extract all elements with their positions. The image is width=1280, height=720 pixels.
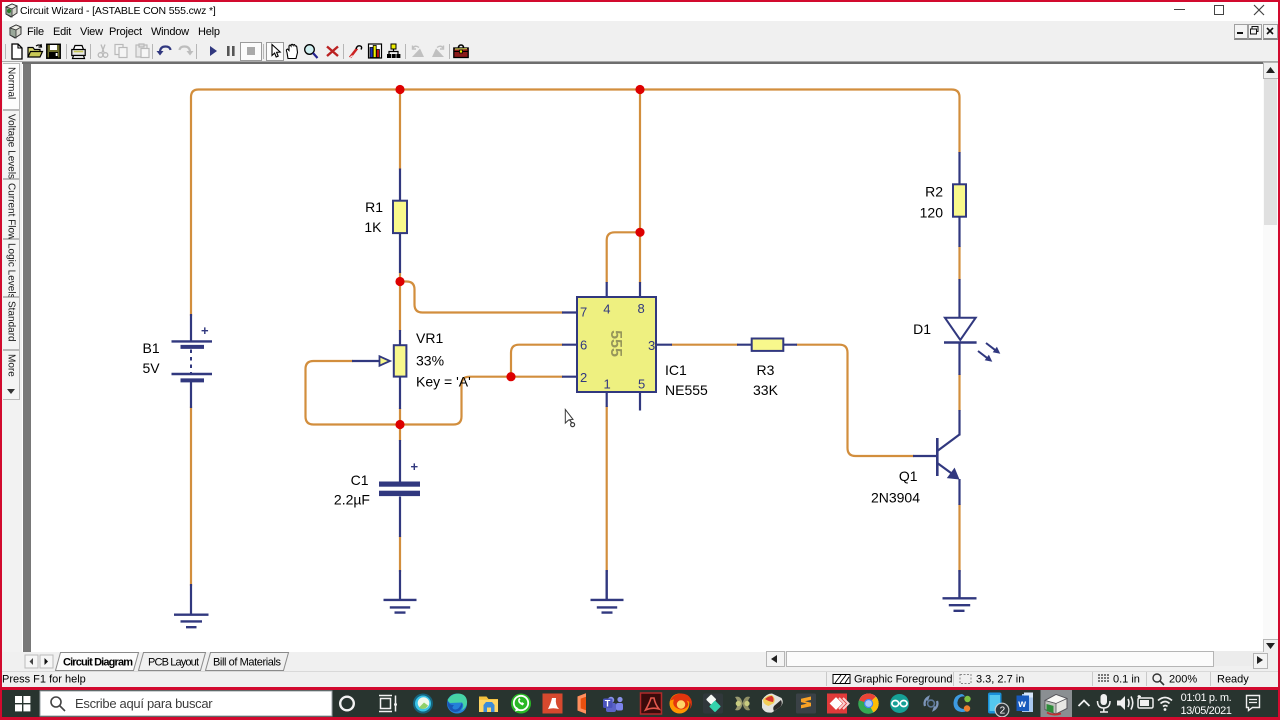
arduino bbox=[890, 694, 909, 713]
wire node to pin7 bbox=[400, 282, 563, 313]
potentiometer VR1 leads bbox=[399, 330, 401, 409]
app icon in titlebar bbox=[4, 3, 19, 18]
wire pin1 ground bbox=[606, 406, 608, 572]
print icon bbox=[72, 46, 85, 59]
sublime bbox=[796, 694, 816, 714]
action center bbox=[1247, 696, 1260, 711]
sync circle bbox=[925, 698, 938, 710]
titlebar buttons bbox=[1174, 9, 1185, 10]
svg-text:w: w bbox=[1017, 699, 1026, 710]
MDI child buttons bbox=[1234, 24, 1248, 40]
svg-text:120: 120 bbox=[920, 205, 944, 221]
svg-text:R2: R2 bbox=[925, 184, 943, 200]
transistor Q1 bar bbox=[936, 438, 939, 476]
svg-text:Graphic Foreground: Graphic Foreground bbox=[854, 674, 952, 686]
svg-text:Escribe aquí para buscar: Escribe aquí para buscar bbox=[75, 696, 213, 711]
wire VR1 top bbox=[399, 282, 401, 332]
battery B1 plates bbox=[172, 341, 213, 374]
search box bbox=[40, 691, 332, 716]
wire R1 top bbox=[399, 90, 401, 170]
capacitor C1 leads bbox=[399, 440, 401, 599]
status bar bbox=[0, 671, 1280, 688]
horizontal scrollbar bbox=[766, 651, 1263, 666]
svg-text:5V: 5V bbox=[143, 360, 161, 376]
red diamond arrows bbox=[827, 694, 847, 714]
svg-text:8: 8 bbox=[638, 301, 645, 316]
ground Q1 bbox=[943, 570, 977, 611]
svg-text:3: 3 bbox=[648, 338, 655, 353]
svg-text:+: + bbox=[201, 323, 209, 338]
wire pin8 riser bbox=[639, 90, 641, 284]
separators bbox=[6, 44, 450, 59]
ground pin1 bbox=[591, 570, 624, 613]
node junction pin4 / pin8 bbox=[635, 228, 644, 237]
select arrow button pressed bbox=[267, 43, 284, 61]
teams bbox=[608, 697, 614, 703]
ground C1 bbox=[384, 600, 417, 613]
dark strip at canvas left bbox=[23, 64, 31, 652]
node junction at pin8 riser / V+ rail bbox=[635, 85, 644, 94]
redo icon (disabled) bbox=[180, 47, 191, 53]
potentiometer VR1 wiper arrow bbox=[352, 360, 381, 362]
wire pin4 to node bbox=[607, 232, 640, 283]
vertical scrollbar bbox=[1263, 62, 1278, 652]
whatsapp bbox=[511, 694, 531, 714]
resistor R3 body bbox=[752, 339, 784, 351]
resistor R1 leads bbox=[399, 169, 401, 274]
wire wiper loop to pins 2,6 bbox=[306, 361, 564, 425]
wire R1 bottom node bbox=[399, 272, 401, 282]
transistor Q1 collector bbox=[937, 410, 959, 451]
node junction VR1 bottom / wiper / C1 top bbox=[395, 420, 404, 429]
svg-text:PCB Layout: PCB Layout bbox=[148, 657, 199, 669]
circuit wizard active tile bbox=[1041, 690, 1073, 717]
hierarchy icon bbox=[387, 44, 400, 58]
delete X icon bbox=[327, 47, 338, 57]
ground B1 bbox=[174, 615, 209, 628]
tray battery bbox=[1138, 698, 1153, 708]
svg-text:555: 555 bbox=[607, 330, 624, 357]
pause icon bbox=[227, 46, 230, 56]
svg-text:Q1: Q1 bbox=[899, 468, 918, 484]
undo icon bbox=[160, 47, 171, 53]
left sidebar bbox=[2, 62, 22, 652]
svg-text:7: 7 bbox=[580, 305, 587, 320]
firefox bbox=[670, 694, 690, 714]
svg-text:NE555: NE555 bbox=[665, 382, 708, 398]
adobe reader highlighted bbox=[641, 693, 662, 714]
wire B1 bottom bbox=[190, 407, 192, 587]
node junction pin2 / pin6 bbox=[506, 372, 515, 381]
transistor Q1 emitter bbox=[937, 463, 959, 505]
start button bbox=[15, 696, 30, 711]
svg-text:200%: 200% bbox=[1169, 674, 1197, 686]
IC 555 pin stubs bbox=[562, 282, 672, 411]
svg-text:1K: 1K bbox=[364, 219, 382, 235]
svg-text:Circuit Diagram: Circuit Diagram bbox=[63, 657, 133, 669]
svg-text:IC1: IC1 bbox=[665, 362, 687, 378]
blue swirl store bbox=[954, 694, 970, 712]
folder explorer bbox=[479, 697, 498, 713]
phone companion bbox=[988, 693, 1002, 714]
rotate left icon (disabled) bbox=[412, 46, 424, 58]
cut icon (disabled) bbox=[98, 45, 108, 58]
LED D1 cathode bar bbox=[944, 341, 977, 344]
cortana ring bbox=[340, 697, 354, 711]
potentiometer VR1 body bbox=[394, 345, 407, 376]
taskbar bbox=[0, 690, 1280, 717]
wire pin3 to R3 bbox=[671, 344, 738, 346]
LED D1 emission arrows bbox=[986, 343, 996, 350]
menu bar bbox=[0, 21, 1280, 42]
wire VR1 bottom bbox=[399, 408, 401, 425]
wire D1 to Q1 collector bbox=[958, 374, 960, 411]
chrome bbox=[859, 694, 879, 714]
chart icon bbox=[369, 44, 382, 58]
svg-text:2.2µF: 2.2µF bbox=[334, 492, 370, 508]
svg-text:01:01 p. m.: 01:01 p. m. bbox=[1181, 692, 1232, 704]
wire C1 top bbox=[399, 425, 401, 442]
node junction at R1 top / V+ rail bbox=[395, 85, 404, 94]
office bbox=[578, 693, 587, 713]
moths bbox=[735, 697, 743, 711]
window title bar bbox=[0, 0, 1280, 21]
filmora bbox=[703, 694, 723, 714]
svg-text:B1: B1 bbox=[143, 340, 160, 356]
svg-text:VR1: VR1 bbox=[416, 330, 443, 346]
new file icon bbox=[12, 44, 22, 59]
svg-text:T: T bbox=[605, 699, 611, 709]
wire top power rail bbox=[191, 90, 960, 317]
svg-text:5: 5 bbox=[638, 377, 645, 392]
hatch icon bbox=[833, 675, 850, 684]
svg-text:D1: D1 bbox=[913, 321, 931, 337]
stop button pressed bbox=[241, 43, 262, 61]
toolbox icon bbox=[454, 45, 468, 58]
rotate right icon (disabled) bbox=[432, 46, 444, 58]
wire R3 to Q1 base bbox=[796, 345, 914, 456]
copy icon (disabled) bbox=[115, 45, 127, 58]
sheet tabs bbox=[56, 653, 289, 671]
svg-text:4: 4 bbox=[603, 302, 610, 317]
resistor R2 leads bbox=[958, 152, 960, 247]
svg-text:R3: R3 bbox=[757, 362, 775, 378]
wire Q1 emitter to ground bbox=[958, 504, 960, 572]
selection icon bbox=[960, 675, 971, 684]
probe icon bbox=[350, 46, 362, 58]
window bottom red border bbox=[0, 687, 1280, 690]
toolbar bbox=[0, 42, 1280, 62]
svg-text:2N3904: 2N3904 bbox=[871, 490, 920, 506]
transistor Q1 base lead bbox=[913, 455, 937, 457]
edge bbox=[447, 694, 467, 714]
resistor R1 body bbox=[393, 201, 407, 233]
svg-text:6: 6 bbox=[580, 338, 587, 353]
svg-text:Ready: Ready bbox=[1217, 674, 1249, 686]
zoom icon bbox=[305, 45, 318, 58]
word bbox=[1022, 694, 1033, 712]
svg-text:33K: 33K bbox=[753, 382, 779, 398]
canvas area bbox=[22, 62, 1263, 654]
open folder icon bbox=[28, 44, 43, 57]
wire C1 bottom bbox=[399, 536, 401, 572]
svg-text:C1: C1 bbox=[351, 472, 369, 488]
play icon bbox=[210, 46, 217, 56]
full frame red border bbox=[0, 0, 1280, 2]
battery B1 leads bbox=[190, 314, 192, 614]
bottom tab bar bbox=[0, 652, 1280, 671]
svg-text:2: 2 bbox=[1000, 706, 1006, 717]
tray speaker bbox=[1117, 696, 1125, 710]
scroll tab arrows bbox=[25, 655, 38, 668]
tray mic bbox=[1101, 694, 1108, 705]
tray chevron bbox=[1079, 701, 1090, 707]
wire pin6 riser bbox=[511, 345, 563, 377]
zoom icon bbox=[1153, 674, 1161, 682]
svg-text:0.1 in: 0.1 in bbox=[1113, 674, 1140, 686]
LED D1 triangle bbox=[945, 318, 976, 340]
paste icon (disabled) bbox=[136, 44, 149, 58]
slicer bbox=[762, 694, 783, 713]
wire R2 to D1 bbox=[958, 246, 960, 280]
svg-text:Press F1 for help: Press F1 for help bbox=[2, 674, 86, 686]
svg-text:Key = 'A': Key = 'A' bbox=[416, 374, 471, 390]
tray wifi bbox=[1158, 698, 1172, 707]
svg-text:R1: R1 bbox=[365, 199, 383, 215]
svg-text:33%: 33% bbox=[416, 353, 444, 369]
mouse cursor bbox=[565, 410, 573, 424]
svg-text:3.3, 2.7 in: 3.3, 2.7 in bbox=[976, 674, 1024, 686]
svg-text:2: 2 bbox=[580, 370, 587, 385]
cortana blue circle bbox=[413, 694, 433, 714]
IC U1 555 body bbox=[577, 297, 656, 392]
LED D1 leads bbox=[958, 279, 960, 375]
svg-text:+: + bbox=[411, 459, 419, 474]
node junction R1 bottom / VR1 top / pin7 bbox=[395, 277, 404, 286]
svg-text:1: 1 bbox=[604, 377, 611, 392]
svg-text:Bill of Materials: Bill of Materials bbox=[213, 657, 282, 669]
resistor R3 leads bbox=[737, 344, 797, 346]
hand icon bbox=[286, 44, 297, 58]
pdf xchange bbox=[543, 694, 563, 714]
capacitor C1 plates bbox=[379, 482, 420, 487]
grid icon bbox=[1098, 674, 1109, 682]
resistor R2 body bbox=[953, 184, 966, 216]
svg-text:13/05/2021: 13/05/2021 bbox=[1180, 705, 1231, 717]
task view bbox=[379, 696, 396, 712]
save floppy icon bbox=[47, 44, 60, 58]
